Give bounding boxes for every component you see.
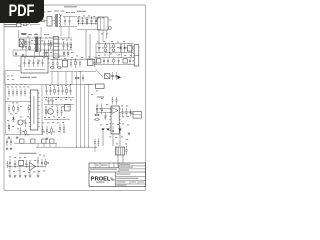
capacitor C66 bbox=[6, 138, 8, 141]
wire bbox=[52, 20, 55, 22]
title block frame bbox=[89, 163, 146, 187]
diode D3 bbox=[15, 51, 17, 57]
wire bus D bbox=[13, 55, 66, 57]
capacitor C30b bbox=[82, 75, 84, 78]
polarity mark 2 bbox=[106, 129, 109, 131]
wire drops bbox=[102, 131, 104, 146]
lamp bbox=[108, 27, 111, 30]
capacitor C62 bbox=[26, 160, 28, 163]
ground bbox=[29, 175, 31, 176]
capacitor C58 bbox=[112, 126, 114, 130]
ground bbox=[14, 175, 16, 176]
capacitor C37b bbox=[28, 105, 30, 108]
capacitor C67 bbox=[10, 138, 12, 141]
label row above bus A bbox=[22, 33, 26, 36]
wire bus bbox=[77, 17, 100, 19]
junction dots bus B bbox=[21, 43, 24, 46]
crystal X1 bbox=[105, 74, 110, 79]
label bbox=[97, 97, 104, 98]
capacitor C61 bbox=[14, 160, 16, 163]
junction dots c bbox=[45, 96, 48, 99]
resistor R7d bbox=[56, 67, 59, 69]
rungs U1 bbox=[53, 39, 58, 41]
wire band bus 2 bbox=[36, 146, 97, 148]
left bus wire bbox=[5, 85, 7, 135]
wire bbox=[96, 19, 98, 21]
capacitor C52 bbox=[63, 124, 65, 128]
note text bbox=[4, 24, 16, 25]
electrolytic C15 bbox=[112, 45, 115, 48]
bridge rectifier BR1 bbox=[19, 39, 24, 47]
U5 pins bbox=[109, 108, 111, 110]
capacitor C37 bbox=[24, 89, 26, 92]
capacitor C54b bbox=[116, 97, 118, 100]
ground bbox=[8, 136, 10, 137]
diode D2 bbox=[95, 17, 97, 25]
connector J1 bbox=[17, 23, 21, 27]
capacitor C55 bbox=[105, 112, 107, 115]
capacitor C57 bbox=[126, 108, 128, 112]
ground bbox=[37, 175, 39, 176]
wire transformer taps bbox=[34, 52, 36, 57]
capacitor C68 bbox=[94, 139, 96, 142]
capacitor C64 bbox=[41, 159, 43, 163]
wire mid bus bottom bbox=[50, 71, 96, 73]
electrolytic C14 bbox=[104, 49, 107, 52]
capacitor C51 bbox=[59, 124, 61, 128]
capacitor C56 bbox=[122, 108, 124, 112]
wire from top cluster bbox=[98, 30, 100, 44]
U5 triangle bbox=[112, 108, 118, 114]
value table bbox=[133, 112, 141, 119]
resistor R4 bbox=[70, 42, 72, 44]
capacitor C11 bbox=[63, 42, 65, 45]
IC U5 bbox=[111, 106, 119, 134]
junction dots mid right bbox=[88, 58, 91, 61]
ground bbox=[128, 132, 130, 133]
box U4 bbox=[65, 105, 71, 111]
capacitor C33 bbox=[8, 89, 10, 92]
wire mains bus bbox=[33, 24, 40, 26]
capacitor C40 bbox=[25, 119, 27, 122]
title row line 3 bbox=[116, 183, 146, 185]
junction dots band bbox=[75, 146, 78, 149]
pin stubs U1 bbox=[58, 39, 59, 41]
right column divider bbox=[118, 163, 120, 172]
resistor R3b bbox=[29, 45, 31, 48]
wire out bus mid bbox=[96, 52, 134, 54]
capacitor C41 bbox=[20, 128, 22, 131]
diode D1 bbox=[78, 17, 80, 25]
label text bbox=[77, 11, 86, 12]
resistor R12 bbox=[66, 87, 68, 89]
fuse F1 bbox=[23, 24, 24, 26]
resistor R14 bbox=[51, 126, 53, 129]
wire bbox=[121, 111, 133, 113]
capacitor tall C13b bbox=[98, 44, 100, 48]
capacitor C53 bbox=[96, 104, 98, 109]
wire mid bus top bbox=[50, 59, 94, 61]
ground bbox=[19, 175, 21, 176]
capacitor C28 bbox=[57, 60, 59, 63]
capacitor C11c bbox=[63, 51, 65, 53]
wire box bus bbox=[25, 69, 46, 71]
wire bus C bbox=[13, 49, 72, 51]
rev cell dividers bbox=[94, 163, 96, 168]
capacitor C21 bbox=[129, 58, 131, 61]
switch SW1 bbox=[28, 23, 31, 25]
capacitor C42 bbox=[46, 87, 48, 90]
capacitor C36 bbox=[20, 89, 22, 92]
wire bus A bbox=[19, 37, 72, 39]
electrolytic C16 bbox=[112, 49, 115, 52]
value labels top chain bbox=[41, 11, 46, 14]
capacitor C59 bbox=[126, 146, 128, 150]
capacitor C30 bbox=[79, 60, 81, 63]
resistor R1 bbox=[86, 17, 88, 19]
designator labels scatter bbox=[23, 41, 25, 44]
capacitor C53b bbox=[112, 97, 114, 100]
polarity mark 3 bbox=[118, 129, 121, 131]
resistor R17 bbox=[45, 159, 47, 162]
label AW bbox=[21, 33, 27, 34]
logo cell divider bbox=[115, 172, 117, 187]
junction dots bbox=[43, 49, 46, 52]
capacitor C7 bbox=[25, 39, 27, 42]
note specks left bbox=[7, 75, 9, 78]
capacitor C38 bbox=[8, 105, 10, 108]
capacitor C49 bbox=[42, 126, 44, 130]
U3 pins bbox=[29, 92, 31, 94]
relay RL2 bbox=[63, 61, 68, 67]
capacitor C65 bbox=[7, 161, 9, 164]
wire bbox=[110, 75, 117, 77]
bottom cell dividers bbox=[129, 181, 131, 185]
logo subtext bbox=[96, 182, 105, 183]
wire riser bus bbox=[76, 72, 78, 147]
capacitor C39 bbox=[17, 105, 19, 108]
box small bbox=[96, 84, 105, 88]
wire into box bbox=[18, 65, 21, 67]
junction bbox=[74, 58, 77, 61]
schematic sheet bbox=[0, 0, 149, 198]
resistor R7c bbox=[75, 77, 76, 79]
wire into U5 bbox=[96, 108, 111, 110]
box F3 bbox=[19, 160, 24, 165]
capacitor C47 bbox=[57, 107, 59, 111]
ground bbox=[9, 175, 11, 176]
title text bbox=[117, 173, 131, 176]
address text bbox=[90, 169, 117, 170]
wire bbox=[117, 155, 119, 168]
electrolytic C13 bbox=[104, 45, 107, 48]
capacitor C46b bbox=[48, 98, 50, 101]
wire bbox=[132, 47, 134, 49]
transformer T1 core bbox=[55, 14, 57, 27]
capacitor C1 bbox=[64, 17, 66, 21]
junction dots bus bbox=[77, 22, 80, 25]
wire bbox=[5, 134, 42, 136]
IC U3 bbox=[31, 90, 38, 130]
fuse F2 bbox=[40, 20, 41, 22]
resistor R3 bbox=[50, 40, 52, 43]
wire bus B bbox=[19, 43, 72, 45]
diode D5 bbox=[124, 44, 126, 53]
capacitor C17 bbox=[103, 58, 105, 61]
title row line 2 bbox=[116, 180, 146, 182]
op-amp A1 bbox=[30, 163, 36, 171]
contact box K2 bbox=[31, 139, 36, 143]
band stubs bbox=[37, 143, 39, 147]
title block rev row line bbox=[89, 167, 119, 169]
polarity mark 1 bbox=[101, 129, 104, 131]
wire y104 bbox=[44, 104, 74, 106]
wire bbox=[9, 167, 11, 176]
wire drops from top chain bbox=[40, 27, 42, 38]
capacitor C4 bbox=[91, 17, 93, 20]
wire bbox=[21, 24, 23, 26]
wire bbox=[95, 44, 97, 65]
diode D6 bbox=[13, 116, 15, 123]
transistor Q1 bbox=[18, 120, 23, 125]
transformer T1 primary bbox=[55, 15, 56, 27]
electrolytic C19 bbox=[112, 59, 115, 62]
capacitor C25 bbox=[37, 59, 39, 62]
resistor R8 bbox=[13, 105, 15, 107]
resistor R9 bbox=[8, 123, 10, 125]
transformer T3 bbox=[116, 147, 125, 155]
ground bbox=[10, 147, 12, 148]
capacitor C12c bbox=[67, 51, 69, 53]
capacitor C9 bbox=[44, 40, 46, 44]
sheet border bbox=[4, 5, 146, 191]
wire bbox=[44, 97, 74, 99]
rev row text bbox=[101, 164, 108, 167]
capacitor C10b bbox=[46, 51, 48, 53]
capacitor C3 bbox=[82, 17, 84, 20]
capacitor C30c bbox=[94, 60, 96, 63]
right col text bbox=[120, 163, 130, 166]
capacitor C48 bbox=[61, 107, 63, 111]
wire left drop bbox=[12, 50, 14, 56]
capacitor C46 bbox=[70, 87, 72, 90]
soft-start box bbox=[98, 17, 109, 30]
resistor R6 bbox=[123, 59, 127, 63]
wire bbox=[5, 101, 29, 103]
IC U1 bbox=[53, 37, 58, 59]
transformer T1 secondary bbox=[59, 15, 60, 27]
capacitor C27 bbox=[52, 60, 54, 63]
junction dots BR1 bbox=[23, 40, 26, 43]
capacitor C22 bbox=[24, 59, 26, 62]
wire out bus low2 bbox=[94, 64, 134, 66]
capacitor C8b bbox=[25, 45, 27, 47]
capacitor C29 bbox=[70, 60, 72, 63]
capacitor C9b bbox=[44, 51, 46, 53]
ground bbox=[16, 136, 18, 137]
capacitor C69 bbox=[98, 139, 100, 142]
junction dots rail bbox=[8, 83, 11, 86]
resistor R13 bbox=[45, 107, 47, 110]
junction bbox=[25, 165, 28, 168]
label POWER SUPPLY bbox=[64, 6, 77, 7]
subcircuit box bbox=[21, 57, 48, 74]
capacitor C32 bbox=[116, 72, 118, 75]
relay RL1 bbox=[47, 17, 52, 27]
diode D4 bbox=[120, 44, 122, 53]
capacitor C12 bbox=[67, 42, 69, 45]
wire risers bbox=[85, 30, 87, 60]
wire rail left bbox=[5, 70, 20, 72]
wire out bbox=[46, 162, 48, 164]
capacitor C50 bbox=[46, 126, 48, 130]
resistor R11 bbox=[54, 87, 56, 89]
wire bbox=[44, 119, 70, 121]
capacitor C2 bbox=[69, 17, 71, 21]
capacitor C26 bbox=[42, 59, 44, 62]
wire out bus low1 bbox=[94, 57, 134, 59]
capacitor C43 bbox=[50, 87, 52, 90]
resistor R5 bbox=[97, 59, 101, 63]
capacitor C54 bbox=[101, 104, 103, 109]
contact box K4 bbox=[50, 139, 55, 143]
resistor R10 bbox=[25, 129, 27, 131]
junction dots row1 bbox=[99, 46, 102, 49]
caption text bbox=[20, 77, 30, 78]
wire band bus 1 bbox=[14, 142, 57, 144]
title row line bbox=[116, 176, 146, 178]
transformer T2 bbox=[35, 37, 36, 52]
diode D7 bbox=[130, 109, 132, 116]
capacitor C45 bbox=[62, 87, 64, 90]
ground bbox=[6, 147, 8, 148]
wire bbox=[86, 84, 96, 86]
connector J2 bbox=[134, 45, 139, 67]
wire bbox=[94, 147, 96, 153]
resistor R7b bbox=[49, 67, 52, 69]
capacitor C20 bbox=[118, 58, 120, 61]
arrow marker bbox=[118, 76, 122, 80]
capacitor C7b bbox=[22, 45, 24, 47]
U3 label bbox=[33, 96, 36, 124]
transistor Q2 bbox=[48, 109, 54, 115]
capacitor C34 bbox=[12, 89, 14, 92]
capacitor C31 bbox=[112, 72, 114, 75]
resistor R16 bbox=[94, 119, 95, 121]
PDF badge bbox=[0, 0, 44, 23]
regulator box U2 bbox=[128, 46, 133, 52]
capacitor C24 bbox=[33, 59, 35, 62]
junction bbox=[99, 16, 102, 19]
capacitor C46c bbox=[52, 98, 54, 101]
capacitor C8 bbox=[29, 39, 31, 42]
junction bbox=[56, 118, 59, 121]
inductor L1 bbox=[88, 59, 93, 66]
wire stub left bbox=[18, 30, 20, 38]
capacitor C63 bbox=[37, 157, 39, 161]
ground bbox=[22, 54, 24, 55]
capacitor C18 bbox=[107, 58, 109, 61]
diagonal wire bbox=[96, 70, 104, 78]
ground bbox=[46, 137, 48, 138]
contact box K3 bbox=[42, 139, 47, 143]
wire out bus top bbox=[96, 43, 134, 45]
capacitor C35 bbox=[16, 89, 18, 92]
title block row line 2 bbox=[89, 171, 146, 173]
wire bus bbox=[8, 166, 46, 168]
wire row joins bbox=[109, 44, 111, 58]
capacitor C60 bbox=[9, 159, 11, 163]
caption text bbox=[19, 153, 37, 154]
contact box K1 bbox=[20, 139, 25, 143]
junction bbox=[94, 146, 97, 149]
wire mid drops bbox=[51, 72, 53, 85]
capacitor C44 bbox=[58, 87, 60, 90]
capacitor C10 bbox=[48, 40, 50, 44]
resistor R7 bbox=[75, 58, 77, 61]
wire top bus bbox=[63, 16, 77, 18]
wire verticals bbox=[25, 50, 27, 56]
resistor R15 bbox=[94, 114, 95, 116]
wire rail y84 bbox=[5, 84, 92, 86]
capacitor C23 bbox=[28, 59, 30, 62]
right column rows bbox=[119, 165, 146, 167]
ground bbox=[25, 175, 27, 176]
